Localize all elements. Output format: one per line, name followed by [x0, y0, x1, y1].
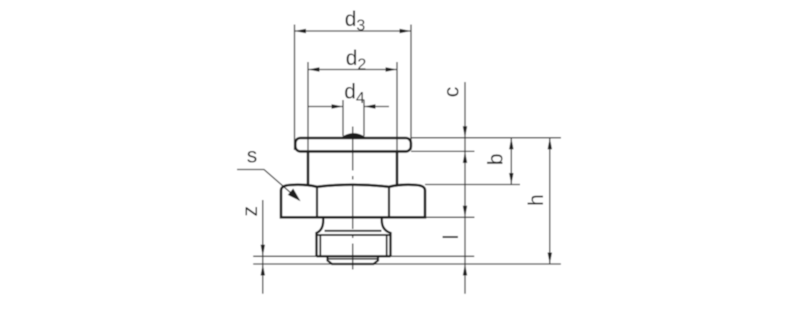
thread shoulder line: [325, 230, 382, 232]
extension line d2 left: [307, 62, 309, 150]
head (flat cap): [295, 138, 411, 151]
dimension line h: [549, 138, 551, 264]
arrow l top (down at hex bottom): [463, 206, 467, 218]
arrow b bottom: [509, 173, 513, 185]
arrow d2 left: [308, 67, 320, 71]
tip inner line: [328, 258, 379, 260]
extension line d4 left: [342, 100, 344, 136]
hex bottom extension line (H4): [425, 216, 475, 218]
arrow z top (down at thread end): [261, 245, 265, 256]
svg-text:s: s: [247, 145, 257, 168]
hex facet line left: [316, 187, 318, 218]
thread end extension line (H5): [253, 255, 474, 257]
neck left edge: [307, 151, 310, 186]
arrow d2 right: [386, 67, 398, 71]
center line: [352, 127, 354, 270]
dimension line z: [262, 200, 264, 294]
arrow d4 left: [332, 104, 344, 108]
bottom extension line (H6): [253, 263, 561, 265]
extension line d4 right: [363, 100, 365, 136]
thread root line right: [386, 235, 388, 256]
arrow b top: [509, 138, 513, 150]
dimension line c and l (shared vertical): [464, 82, 466, 294]
arrowhead s: [288, 189, 301, 202]
svg-text:b: b: [485, 153, 508, 165]
dimension line d2: [308, 69, 397, 71]
neck right edge: [396, 151, 399, 186]
dimension line d4 right tail: [364, 106, 389, 108]
thread bottom edge: [317, 255, 391, 257]
arrow h bottom: [548, 253, 552, 265]
lower neck + flare left: [317, 219, 324, 257]
leader line s: [237, 170, 299, 201]
svg-text:z: z: [239, 206, 262, 217]
extension line d2 right: [396, 62, 398, 150]
head top extension line to h (H1): [411, 137, 561, 139]
dome (grease inlet bump): [342, 134, 366, 138]
dimension line d3: [295, 30, 412, 32]
hex outline: [281, 185, 425, 218]
dimension line b: [510, 138, 512, 185]
extension line d3 left: [294, 25, 296, 151]
hex top extension line (H3): [425, 184, 520, 186]
dimension line d4 left tail: [308, 106, 343, 108]
thread root line left: [319, 235, 321, 256]
arrow l bottom (up at part bottom): [463, 264, 467, 276]
thread top line: [317, 234, 391, 236]
arrow c bottom (up at head bottom): [463, 151, 467, 163]
extension line d3 right: [410, 25, 412, 151]
svg-text:h: h: [525, 194, 548, 206]
arrow z bottom (up at part bottom): [261, 264, 265, 276]
svg-text:c: c: [440, 87, 463, 98]
arrow d3 right: [400, 29, 412, 33]
arrow d4 right: [364, 104, 376, 108]
lower neck + flare right: [382, 219, 391, 257]
arrow c top (down at head top): [463, 126, 467, 138]
arrow d3 left: [295, 29, 307, 33]
svg-text:l: l: [440, 235, 463, 240]
head bottom extension line (H2): [411, 150, 475, 152]
tip outline: [328, 256, 379, 264]
arrow h top: [548, 138, 552, 150]
hex facet line right: [388, 187, 390, 218]
